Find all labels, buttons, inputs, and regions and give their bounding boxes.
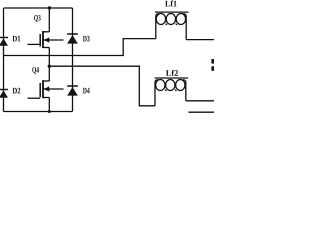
cut-off label at right edge [211,59,214,71]
wire: Q3 source down to Q4 drain [48,48,50,82]
wire: Q4 source to bottom rail [48,98,50,112]
diode D3 [67,34,78,44]
wire: node A rail to Lf1 [4,39,156,56]
label Q3 [34,15,41,22]
left branch wire [3,8,5,112]
bottom rail [4,111,73,113]
wire: Q3 drain to top rail [48,8,50,32]
label D4 [83,88,90,94]
wire: bottom return segment at right edge [189,111,215,113]
inductor Lf1 [155,12,189,39]
top rail [4,7,73,9]
label D3 [83,36,90,42]
inductor Lf2 [155,78,188,106]
diode D2 [0,90,8,98]
junction dot node B [48,65,51,68]
label Lf2 [166,70,178,76]
label D1 [13,36,21,42]
wire: node B to Lf2 [49,66,155,106]
label D2 [13,88,21,94]
wire: D3/D4 branch vertical [72,8,74,112]
transistor Q3 [28,31,64,48]
diode D1 [0,38,8,46]
label Q4 [32,67,39,74]
transistor Q4 [28,80,64,98]
wire: Lf2 output to right edge [186,100,214,102]
diode D4 [67,86,78,96]
wire: Lf1 output to right edge [186,39,214,41]
label Lf1 [165,0,176,6]
junction dot bottom rail [48,110,51,113]
junction dot top rail [48,6,51,9]
